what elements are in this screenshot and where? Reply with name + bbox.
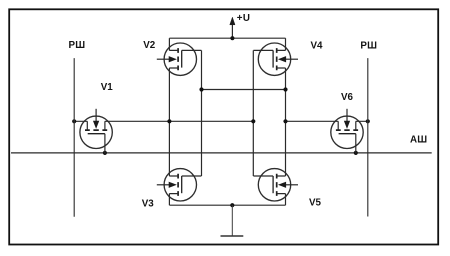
node junction bitline-right (366, 119, 370, 123)
node junction bitline-left (72, 119, 76, 123)
node junction +U on rail (230, 36, 234, 40)
svg-text:V4: V4 (311, 40, 324, 51)
node junction V1 gate on АШ (103, 151, 107, 155)
wire: bit line right (РШ) (367, 58, 369, 216)
+U supply arrow (231, 24, 233, 39)
wire: V5 source down (285, 194, 287, 206)
wire: ground lead (231, 205, 233, 236)
wire: V4 drain from rail (285, 38, 287, 50)
wire: V2 drain from rail (168, 38, 170, 50)
wire: word line АШ (11, 152, 432, 154)
ground (221, 235, 244, 237)
svg-text:V5: V5 (309, 198, 322, 209)
node junction A to V4/V5 gates (251, 119, 255, 123)
wire: gate line of V2,V3 (to node B) (201, 50, 203, 176)
wire: node B horizontal line (286, 120, 368, 122)
svg-text:V2: V2 (143, 40, 156, 51)
node junction cross right (283, 87, 287, 91)
wire: V3 source down (168, 194, 170, 206)
transistor V1 (80, 109, 112, 154)
svg-text:V6: V6 (341, 92, 354, 103)
wire: node A horizontal line (74, 120, 253, 122)
svg-text:V1: V1 (101, 82, 114, 93)
wire: gate line of V4,V5 (to node A) (252, 50, 254, 176)
node junction ground (230, 203, 234, 207)
svg-text:+U: +U (237, 13, 250, 24)
wire: bit line left (РШ) (73, 58, 75, 217)
svg-text:АШ: АШ (410, 135, 427, 146)
svg-text:V3: V3 (142, 198, 155, 209)
wire: cross-coupling line (202, 89, 286, 91)
transistor V4 (253, 43, 298, 75)
wire: node A vertical (V2 source to V3 drain) (168, 68, 170, 176)
transistor V6 (331, 109, 363, 154)
node junction V6 gate on АШ (354, 151, 358, 155)
wire: bottom source rail (169, 204, 285, 206)
node junction cross left (199, 87, 203, 91)
transistor V3 (157, 169, 202, 201)
svg-text:РШ: РШ (69, 40, 86, 51)
svg-text:РШ: РШ (360, 41, 377, 52)
node junction B to V4 source (283, 119, 287, 123)
wire: +U rail (169, 37, 285, 39)
node junction A (167, 119, 171, 123)
transistor V2 (157, 43, 202, 75)
transistor V5 (253, 169, 298, 201)
wire: node B vertical (V4 source to V5 drain) (285, 68, 287, 176)
